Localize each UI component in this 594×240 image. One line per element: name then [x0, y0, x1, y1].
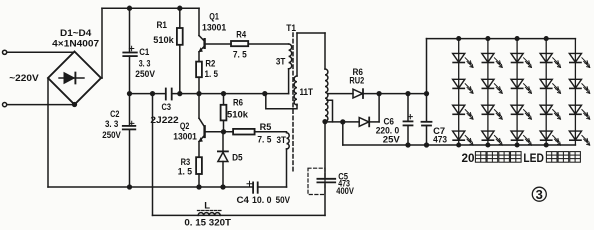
LED column 2 row 2	[482, 79, 502, 93]
svg-text:13001: 13001	[173, 131, 197, 142]
diode D lower	[359, 118, 369, 127]
LED column 5 row 2	[569, 79, 589, 93]
node secondary bottom tap	[323, 120, 327, 124]
svg-text:11T: 11T	[300, 87, 314, 98]
LED column 4 row 3	[540, 105, 560, 119]
svg-text:RU2: RU2	[349, 76, 364, 87]
wire LED column 3	[516, 39, 518, 145]
svg-text:510k: 510k	[227, 110, 249, 121]
LED column 3 row 3	[511, 105, 531, 119]
capacitor C6	[406, 92, 410, 96]
node bridge bottom vertex	[73, 103, 77, 107]
node C7 top	[425, 92, 429, 96]
winding T1 primary 3T top	[289, 44, 292, 69]
wire R4 to T1 primary 1	[248, 43, 288, 45]
svg-text:7. 5: 7. 5	[233, 49, 248, 60]
svg-text:~220V: ~220V	[9, 73, 39, 84]
LED column 2 row 1	[482, 53, 502, 67]
wire LED column 5	[574, 39, 576, 145]
transistor Q2	[198, 94, 200, 119]
svg-text:1. 5: 1. 5	[178, 167, 193, 178]
wire mid rail	[130, 93, 166, 95]
svg-text:R1: R1	[157, 20, 168, 31]
svg-text:R2: R2	[205, 59, 215, 70]
node LED column 4 bottom	[544, 143, 548, 147]
node LED column 3 top	[515, 37, 519, 41]
svg-text:C1: C1	[139, 47, 150, 58]
wire secondary mid tap to diode R6	[328, 93, 353, 95]
bridge rectifier D1~D4	[48, 52, 101, 105]
node C1 top	[128, 6, 132, 10]
resistor R5	[233, 129, 255, 135]
LED column 2 row 4	[482, 131, 502, 145]
LED column 4 row 2	[540, 79, 560, 93]
node LED column 4 top	[544, 37, 548, 41]
wire LED column 1	[458, 39, 460, 145]
wire Q1 base	[206, 43, 231, 45]
LED column 1 row 3	[453, 105, 473, 119]
svg-text:3. 3: 3. 3	[105, 119, 118, 130]
winding T1 11T	[296, 33, 298, 76]
svg-text:2J222: 2J222	[150, 115, 178, 126]
svg-text:0. 15 320T: 0. 15 320T	[184, 217, 231, 228]
LED column 1 row 2	[453, 79, 473, 93]
svg-text:400V: 400V	[336, 186, 354, 196]
capacitor C5	[324, 122, 326, 179]
capacitor C4	[252, 182, 254, 192]
node LED column 1 bottom	[457, 143, 461, 147]
LED column 5 row 3	[569, 105, 589, 119]
core dashed line T1	[292, 33, 294, 174]
wire 3T bottom to rail	[286, 149, 288, 187]
svg-text:7. 5: 7. 5	[257, 134, 272, 145]
capacitor C1	[129, 8, 131, 52]
wire 11T bottom lead to mid rail	[266, 94, 297, 109]
svg-text:3T: 3T	[276, 57, 286, 68]
svg-text:25V: 25V	[383, 135, 401, 146]
wire DC minus: bridge left vertex down	[47, 78, 49, 187]
svg-text:D1~D4: D1~D4	[60, 28, 92, 39]
svg-text:250V: 250V	[102, 130, 121, 141]
label 20 LED lamps (CJK blocks)	[462, 152, 581, 165]
svg-text:4×1N4007: 4×1N4007	[52, 38, 99, 49]
resistor R6 510k	[222, 92, 226, 96]
wire output top	[363, 93, 427, 95]
svg-text:LED: LED	[523, 153, 544, 165]
figure number circle 3	[532, 187, 546, 202]
LED column 4 row 4	[540, 131, 560, 145]
wire array top rail	[427, 38, 576, 40]
resistor R3	[196, 157, 202, 174]
svg-text:R4: R4	[236, 30, 246, 41]
LED column 1 row 1	[453, 53, 473, 67]
node LED column 3 bottom	[515, 143, 519, 147]
svg-text:L: L	[204, 200, 210, 211]
LED column 5 row 1	[569, 53, 589, 67]
wire L branch vertical	[152, 94, 154, 216]
resistor R4	[231, 41, 248, 46]
node L branch	[151, 92, 155, 96]
resistor R2	[196, 62, 202, 78]
svg-text:250V: 250V	[135, 69, 155, 80]
wire 3T top bottom lead	[288, 69, 290, 94]
wire array left riser	[426, 39, 428, 94]
diode R6 RU2	[353, 89, 363, 98]
wire lower diode to top wire	[369, 121, 379, 123]
winding T1 primary 3T bottom	[287, 133, 290, 149]
diode D5	[222, 132, 224, 151]
capacitor C7	[426, 94, 428, 122]
LED array 4 x 5	[453, 37, 590, 147]
svg-text:Q1: Q1	[209, 12, 219, 23]
svg-text:20: 20	[462, 153, 475, 165]
dashed box near C5	[308, 168, 325, 194]
terminal AC bottom	[3, 103, 7, 107]
svg-text:10. 0: 10. 0	[252, 195, 272, 206]
svg-text:3. 3: 3. 3	[139, 58, 151, 69]
node LED return branch	[341, 120, 345, 124]
svg-text:R5: R5	[260, 122, 272, 133]
wire lower loop	[153, 214, 326, 216]
wire LED column 2	[487, 39, 489, 145]
LED column 1 row 4	[453, 131, 473, 145]
svg-text:50V: 50V	[276, 195, 291, 206]
svg-text:3: 3	[536, 187, 543, 202]
wire LED return	[342, 122, 344, 145]
capacitor C2	[129, 94, 131, 126]
wire T1 top bridge	[297, 32, 325, 34]
terminal AC top	[3, 50, 7, 54]
svg-text:C4: C4	[237, 195, 250, 206]
LED column 4 row 1	[540, 53, 560, 67]
inductor L	[198, 213, 220, 216]
wire LED column 4	[545, 39, 547, 145]
wire secondary bottom tap to lower diode	[325, 121, 359, 123]
svg-text:473: 473	[433, 135, 447, 146]
node LED column 2 top	[486, 37, 490, 41]
svg-text:510k: 510k	[153, 35, 174, 46]
wire AC top to bridge	[7, 51, 75, 53]
svg-text:3T: 3T	[277, 135, 287, 146]
node C2 bottom	[128, 185, 132, 189]
wire secondary tap stub	[327, 100, 333, 122]
LED column 3 row 2	[511, 79, 531, 93]
wire Q2 base	[206, 131, 234, 133]
wire bottom rail left portion	[48, 186, 253, 188]
capacitor C3	[165, 89, 167, 100]
svg-text:13001: 13001	[202, 23, 227, 34]
svg-text:D5: D5	[232, 153, 243, 164]
svg-text:C3: C3	[162, 102, 172, 113]
svg-text:1. 5: 1. 5	[205, 69, 219, 80]
LED column 3 row 1	[511, 53, 531, 67]
LED column 3 row 4	[511, 131, 531, 145]
winding T1 secondary main	[324, 33, 326, 69]
svg-text:T1: T1	[286, 23, 296, 34]
resistor R1	[178, 6, 182, 10]
wire DC plus riser	[101, 77, 102, 79]
svg-text:R6: R6	[233, 98, 243, 109]
LED column 2 row 3	[482, 105, 502, 119]
wire AC bottom to bridge	[7, 104, 75, 106]
node LED column 1 top	[457, 37, 461, 41]
node LED column 2 bottom	[486, 143, 490, 147]
node top wire junction	[377, 92, 381, 96]
LED column 5 row 4	[569, 131, 589, 145]
wire top rail	[102, 7, 199, 9]
transistor Q1	[198, 8, 200, 35]
node mid rail left end	[128, 92, 132, 96]
